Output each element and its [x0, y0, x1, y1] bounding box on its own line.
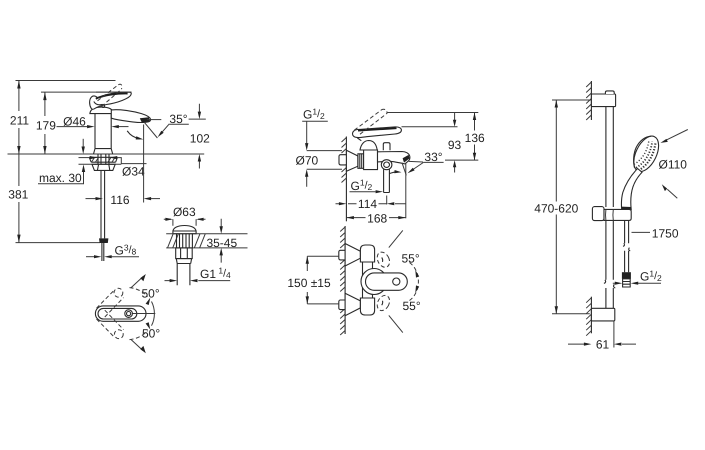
- svg-text:Ø70: Ø70: [296, 154, 319, 168]
- svg-text:179: 179: [36, 119, 56, 133]
- ext line 61: [613, 321, 615, 348]
- counter underside line: [79, 163, 122, 165]
- top escutcheon front: [345, 244, 360, 267]
- svg-text:93: 93: [448, 138, 462, 152]
- hose upper: [625, 220, 629, 243]
- mixer lever thick edge: [358, 128, 397, 130]
- handle dark wedge: [622, 207, 632, 212]
- G1 1/4 leader: [165, 280, 231, 282]
- escutcheon cone side: [346, 150, 358, 171]
- svg-text:168: 168: [367, 211, 387, 225]
- 35 leader arrow: [158, 131, 164, 138]
- dim O110 arrow top: [667, 130, 688, 140]
- spout tip ext line: [405, 163, 407, 218]
- O70 ext lines: [307, 151, 342, 170]
- mixer lever top view: [352, 127, 401, 138]
- G1/2 shower arrows: [613, 282, 661, 284]
- 33 underline: [423, 161, 443, 163]
- 1750 leader: [632, 231, 651, 233]
- svg-text:150 ±15: 150 ±15: [287, 276, 331, 290]
- dim line 211/381 vertical: [18, 81, 20, 243]
- 55 radial line bottom: [389, 315, 403, 332]
- shower handle: [621, 169, 642, 210]
- svg-text:102: 102: [190, 132, 210, 146]
- spout top view: [378, 152, 410, 164]
- spray face dots: [638, 142, 655, 170]
- drain ext lines: [173, 219, 196, 226]
- swivel curved arrow mid: [389, 172, 397, 174]
- supply thin pipe: [102, 243, 104, 261]
- shower wall top hatch: [586, 82, 591, 120]
- bottom bracket: [591, 308, 614, 321]
- dim line 470-620: [555, 100, 557, 314]
- svg-text:Ø34: Ø34: [122, 164, 145, 178]
- lower wall hatch: [340, 227, 345, 335]
- body top block: [360, 245, 374, 262]
- svg-text:381: 381: [8, 188, 28, 202]
- aerator: [140, 117, 150, 123]
- Ø34 arrows: [79, 157, 90, 159]
- 55 arc arrow top: [415, 270, 419, 278]
- hose pipe ext line: [386, 196, 388, 205]
- holder clamp waist lines: [606, 209, 614, 220]
- dashed raised handle tip: [118, 84, 122, 89]
- dashed raised handle lower line: [98, 85, 119, 101]
- drain locknut: [176, 248, 193, 259]
- column base flare: [94, 149, 113, 154]
- hose break marks: [623, 243, 630, 251]
- drain tailpipe: [177, 264, 190, 286]
- lever end inner mark up: [381, 258, 384, 262]
- svg-text:35-45: 35-45: [206, 236, 237, 250]
- bottom union nut front: [339, 300, 347, 310]
- mid wall hatch top view: [342, 138, 347, 183]
- shower wall top line: [590, 81, 592, 120]
- dim Ø46 arrow right: [118, 126, 129, 128]
- extension line top (211): [16, 80, 116, 82]
- handle inner line: [94, 102, 103, 105]
- rail lines: [606, 107, 613, 309]
- dashed raised lever lines: [354, 110, 387, 134]
- hose connection pipe: [384, 169, 390, 192]
- Ø34 bracket leader: [117, 158, 147, 164]
- tailpipe: [101, 170, 105, 238]
- drain cap dome: [173, 226, 196, 234]
- svg-text:211: 211: [10, 113, 29, 127]
- svg-text:470-620: 470-620: [534, 201, 578, 215]
- extension line 381 bottom: [16, 242, 101, 244]
- shower wall bottom line: [590, 297, 592, 334]
- ext line rest lever top: [402, 126, 458, 128]
- dim 61: [568, 343, 636, 345]
- lever detail dashed circle down: [114, 330, 123, 339]
- hose nut dark: [622, 272, 631, 279]
- ext line raised lever top: [388, 112, 479, 114]
- 55 radial line top: [389, 230, 403, 247]
- 33 leader lines: [402, 163, 423, 176]
- svg-text:55°: 55°: [402, 252, 420, 266]
- ext line 470 bottom: [552, 313, 590, 315]
- dim 35-45: [220, 219, 222, 263]
- holder knob: [592, 207, 604, 221]
- dim 211 arrows: [17, 81, 20, 155]
- 50 deg bottom line and arrow: [131, 340, 143, 351]
- drain taper: [176, 259, 191, 264]
- svg-text:Ø110: Ø110: [659, 157, 688, 171]
- hose thread end: [623, 279, 631, 287]
- shower head: [629, 132, 664, 175]
- dim 150+-15: [306, 256, 308, 304]
- lever detail dashed circle up: [114, 288, 123, 297]
- lever detail inner capsule: [98, 308, 137, 319]
- mid wall line top view: [345, 137, 347, 222]
- dim 168: [346, 217, 405, 219]
- holder clamp: [604, 209, 631, 220]
- shower wall bottom hatch: [586, 298, 591, 336]
- head back rim line: [634, 136, 651, 168]
- max30 down arrow: [82, 139, 84, 147]
- ext line 470 top: [552, 99, 591, 101]
- lever detail pivot: [125, 310, 133, 318]
- spout: [111, 110, 150, 123]
- hose port: [381, 160, 392, 170]
- aerator level line: [409, 160, 479, 162]
- svg-text:50°: 50°: [142, 287, 160, 301]
- dim O70 top arrow: [306, 121, 308, 187]
- 150 ext lines: [307, 256, 339, 304]
- drain dim line Ø63: [164, 218, 206, 220]
- body bottom block: [360, 298, 374, 315]
- 33 leader arrow: [408, 168, 415, 174]
- extension from aerator: [143, 125, 145, 203]
- svg-text:50°: 50°: [142, 326, 160, 340]
- lever detail centerline: [133, 313, 156, 315]
- mixer lever front: [366, 273, 408, 290]
- top bracket knob: [605, 91, 614, 94]
- 50 deg top line and arrow: [131, 277, 143, 288]
- 55 arc dashed: [410, 263, 419, 301]
- svg-text:55°: 55°: [403, 299, 421, 313]
- top bracket: [591, 94, 615, 107]
- body column: [363, 262, 373, 298]
- dim 114: [336, 203, 407, 205]
- deck lines: [166, 234, 247, 248]
- svg-text:max. 30: max. 30: [39, 171, 82, 185]
- bottom escutcheon front: [345, 293, 360, 316]
- dim Ø46 leader left: [57, 126, 89, 128]
- lever detail solid: [95, 306, 146, 321]
- dim 93 arrows: [454, 113, 456, 173]
- washer hatch: [92, 158, 116, 163]
- spout aerator: [403, 155, 410, 163]
- dim 381 bottom arrow: [17, 235, 20, 243]
- faucet handle lever: [90, 92, 132, 109]
- svg-text:1750: 1750: [652, 227, 679, 241]
- top union nut front: [339, 250, 347, 260]
- dim 136 line: [474, 113, 476, 161]
- lever end inner mark down: [381, 301, 384, 305]
- dashed raised handle upper line: [102, 89, 122, 106]
- threaded collar: [358, 154, 364, 169]
- counter top line: [8, 153, 205, 155]
- drain body threads: [177, 234, 193, 248]
- extension line 102 top: [189, 118, 206, 120]
- 35 leader lines: [145, 123, 169, 138]
- svg-text:Ø63: Ø63: [173, 205, 196, 219]
- faucet body column: [95, 113, 111, 148]
- svg-text:114: 114: [358, 197, 377, 211]
- lower wall line: [344, 226, 346, 334]
- hose lower: [625, 251, 629, 272]
- swivel curved arrow: [127, 131, 140, 139]
- extension line 179: [41, 91, 132, 93]
- mounting nut: [92, 164, 115, 170]
- handle thick top edge: [96, 93, 128, 98]
- 55 arc arrow bottom: [415, 285, 419, 293]
- diverter knob: [383, 143, 390, 151]
- dashed raised lever tip: [381, 109, 387, 113]
- G3/8 leader arrows: [86, 256, 95, 258]
- svg-text:136: 136: [465, 131, 485, 145]
- faucet bonnet dome: [90, 107, 114, 114]
- extension line 179 overlay: [96, 91, 132, 93]
- mixer body block: [364, 150, 378, 170]
- 35 underline: [169, 123, 189, 125]
- handle pivot dot: [102, 105, 105, 108]
- dashed lever end down: [375, 293, 392, 312]
- supply stop flange: [99, 238, 108, 243]
- dim O110 arrow bottom: [667, 189, 677, 198]
- lever detail dashed edges: [97, 290, 124, 337]
- mounting shank: [98, 154, 109, 164]
- lever pivot front: [393, 278, 400, 285]
- dim 179 arrows: [43, 92, 46, 154]
- G1/2 top underline: [302, 120, 328, 122]
- dim 116: [86, 198, 96, 200]
- mixer lever neck line: [357, 138, 361, 141]
- svg-text:61: 61: [596, 338, 610, 352]
- dim line 179 vertical: [44, 92, 46, 154]
- dim 102 arrows: [198, 104, 200, 169]
- dashed lever end up: [375, 250, 392, 269]
- mounting washer: [89, 157, 117, 162]
- rail break marks: [604, 280, 615, 288]
- deck hatch: [168, 234, 206, 248]
- max30 underline leader: [38, 172, 84, 184]
- svg-text:116: 116: [110, 193, 129, 207]
- 50 deg arc dashed: [130, 288, 148, 340]
- G1/2 lower leader: [350, 191, 376, 193]
- cartridge dome: [360, 141, 377, 151]
- cartridge housing: [361, 269, 387, 295]
- supply union nut: [339, 155, 347, 165]
- outlet level line left: [147, 119, 162, 121]
